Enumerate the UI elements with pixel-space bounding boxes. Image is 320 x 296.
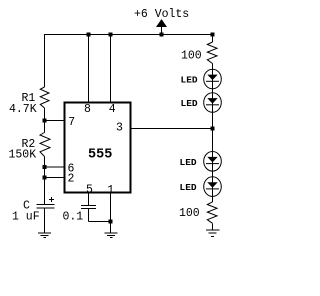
node pin1-C2 junction <box>109 220 113 224</box>
wire C2 bottom to node <box>89 209 111 222</box>
ground pin1 <box>105 233 118 238</box>
svg-text:+6 Volts: +6 Volts <box>134 8 189 21</box>
svg-text:1 uF: 1 uF <box>12 211 40 224</box>
svg-text:0.1: 0.1 <box>63 211 84 224</box>
node right rail junction <box>211 33 215 37</box>
label LED 4 <box>180 182 197 193</box>
node supply junction <box>160 33 164 37</box>
node pin2 junction <box>43 176 47 180</box>
LED D1 <box>204 69 222 89</box>
resistor R3 100 top <box>207 42 217 64</box>
svg-text:8: 8 <box>84 103 91 116</box>
wire pin 6 <box>45 166 65 168</box>
node pin3 junction <box>211 127 215 131</box>
resistor R4 100 bottom <box>207 202 217 224</box>
wire right branch to ground <box>212 223 214 230</box>
node pin7 junction <box>43 119 47 123</box>
wire between R1 and R2 <box>44 108 46 133</box>
capacitor C1 plus sign <box>49 197 54 202</box>
LED D4 <box>204 177 222 197</box>
wire pin 1 to ground <box>110 194 112 233</box>
pin 4 label <box>109 103 116 116</box>
wire right branch top <box>212 35 214 43</box>
ground C1 <box>38 233 51 238</box>
label 0.1 <box>63 211 84 224</box>
pin 1 label <box>107 184 114 197</box>
label C <box>23 200 30 213</box>
wire left rail upper <box>44 35 46 88</box>
svg-text:150K: 150K <box>9 149 37 162</box>
svg-text:LED: LED <box>181 75 198 86</box>
label +6 Volts <box>134 8 189 21</box>
label LED 1 <box>181 75 198 86</box>
svg-text:LED: LED <box>180 182 197 193</box>
label LED 3 <box>180 157 197 168</box>
svg-text:100: 100 <box>179 207 200 220</box>
svg-text:2: 2 <box>68 172 75 185</box>
wire pin 8 <box>88 35 90 103</box>
resistor R2 <box>40 133 50 157</box>
wire pin 7 <box>45 120 65 122</box>
svg-text:LED: LED <box>180 157 197 168</box>
label LED 2 <box>181 98 198 109</box>
wire pin 5 <box>88 194 90 206</box>
wire top supply rail <box>44 34 213 36</box>
label 150K <box>9 149 37 162</box>
svg-text:5: 5 <box>86 184 93 197</box>
node pin6 junction <box>43 165 47 169</box>
pin 3 label <box>116 122 123 135</box>
label 555 <box>88 148 112 163</box>
label R2 <box>22 138 36 151</box>
pin 6 label <box>68 162 75 175</box>
svg-text:LED: LED <box>181 98 198 109</box>
ground right <box>206 230 220 237</box>
svg-text:4.7K: 4.7K <box>9 103 37 116</box>
node pin8 junction <box>87 33 91 37</box>
svg-text:4: 4 <box>109 103 116 116</box>
wire pin 2 <box>45 177 65 179</box>
wire pin 3 <box>132 128 213 130</box>
pin 2 label <box>68 172 75 185</box>
pin 8 label <box>84 103 91 116</box>
node pin4 junction <box>109 33 113 37</box>
svg-text:555: 555 <box>88 148 112 163</box>
power arrow +6V <box>156 19 167 35</box>
label 100 bottom <box>179 207 200 220</box>
label R1 <box>22 92 36 105</box>
LED D2 <box>204 93 222 113</box>
svg-text:3: 3 <box>116 122 123 135</box>
wire pin 4 <box>110 35 112 103</box>
wire left rail lower <box>44 157 46 205</box>
resistor R1 <box>40 87 49 108</box>
op-amp U1 555 IC body <box>65 103 131 193</box>
label 1 uF <box>12 211 40 224</box>
LED D3 <box>204 152 222 172</box>
pin 5 label <box>86 184 93 197</box>
svg-text:7: 7 <box>68 116 75 129</box>
wire right branch middle <box>212 64 214 202</box>
pin 7 label <box>68 116 75 129</box>
label 4.7K <box>9 103 37 116</box>
capacitor C2 0.1 <box>81 205 96 208</box>
capacitor C1 <box>37 205 55 209</box>
svg-text:100: 100 <box>181 50 202 63</box>
label 100 top <box>181 50 202 63</box>
wire C1 to ground <box>44 208 46 233</box>
